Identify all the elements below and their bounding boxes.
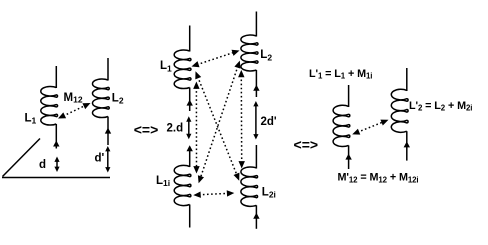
inductor L1 (image model): [174, 50, 191, 89]
inductor L1i: [174, 165, 191, 205]
svg-text:M'12 = M12 + M12i: M'12 = M12 + M12i: [338, 172, 419, 185]
wire L'1 branch top: [348, 85, 350, 107]
inductor L2i: [241, 167, 258, 206]
dimension arrow d: [54, 157, 59, 173]
svg-text:L2: L2: [260, 49, 272, 62]
svg-text:2d': 2d': [261, 116, 277, 128]
svg-text:2.d: 2.d: [167, 123, 184, 135]
current arrow L2 branch: [105, 128, 111, 134]
coupling arrow L1i-L2i: [193, 190, 234, 198]
svg-text:d: d: [39, 159, 46, 171]
svg-text:L1: L1: [25, 112, 37, 125]
wire L'2 branch top: [406, 68, 408, 91]
wire L'2 branch bottom: [406, 131, 408, 160]
inductor L2: [92, 79, 109, 118]
svg-text:d': d': [95, 153, 105, 165]
coupling arrow L2-L1i: [198, 61, 241, 184]
svg-text:L2i: L2i: [262, 187, 276, 200]
coupling arrow L1-L2i: [195, 71, 239, 180]
wire L1 branch bottom: [55, 124, 57, 149]
dimension arrow 2d': [253, 101, 258, 140]
inductor L'1: [333, 105, 350, 146]
current arrow above L1i: [187, 145, 193, 151]
ground plane: [2, 139, 110, 178]
wire above L2i: [255, 145, 257, 169]
coupling arrow L1-L2: [192, 50, 240, 67]
mutual coupling arrow M12: [58, 103, 91, 119]
current arrow below L1: [187, 100, 193, 106]
coupling arrow L2-L2i: [238, 70, 245, 169]
svg-text:<=>: <=>: [294, 137, 319, 153]
inductor L1: [41, 86, 58, 125]
wire L'1 branch bottom: [348, 145, 350, 169]
current arrow L1 branch: [53, 141, 59, 147]
wire L2 branch bottom: [107, 117, 109, 146]
inductor L'2: [391, 89, 408, 132]
svg-text:<=>: <=>: [134, 122, 159, 138]
wire below L2: [255, 70, 257, 97]
svg-text:L1: L1: [160, 60, 172, 73]
wire image-model right bottom: [255, 205, 257, 229]
wire below L1: [189, 88, 191, 112]
svg-text:L'1 = L1 + M1i: L'1 = L1 + M1i: [309, 68, 372, 81]
svg-text:M12: M12: [64, 92, 83, 105]
current arrow below L2i: [253, 213, 259, 219]
dimension arrow 2.d: [186, 116, 191, 139]
wire above L1i: [189, 147, 191, 168]
dimension arrow d': [105, 146, 110, 173]
current arrow L'2 branch: [404, 141, 410, 147]
wire image-model right top: [255, 12, 257, 37]
mutual coupling arrow M'12: [352, 120, 388, 135]
wire image-model left bottom: [189, 205, 191, 228]
wire L1 branch top: [55, 66, 57, 88]
current arrow below L2: [253, 85, 259, 91]
svg-text:L2: L2: [112, 92, 124, 105]
wire L2 branch top: [107, 58, 109, 81]
coupling arrow L1-L1i: [193, 82, 200, 174]
inductor L2 (image model): [241, 35, 258, 71]
svg-text:L1i: L1i: [156, 175, 170, 188]
current arrow L'1 branch: [345, 154, 351, 160]
svg-text:L'2 = L2 + M2i: L'2 = L2 + M2i: [409, 100, 472, 113]
wire image-model left top: [189, 26, 191, 52]
